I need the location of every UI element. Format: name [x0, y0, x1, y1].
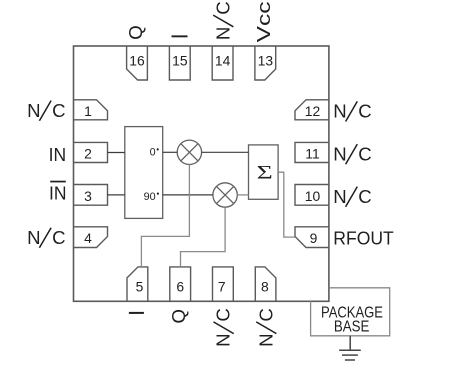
svg-text:Vcc: Vcc [253, 1, 274, 42]
svg-text:N: N [212, 27, 233, 40]
svg-text:C: C [212, 1, 233, 14]
svg-text:N: N [27, 227, 40, 248]
svg-text:N: N [333, 143, 346, 164]
svg-text:C: C [255, 308, 276, 321]
svg-text:90: 90 [144, 191, 156, 203]
svg-text:5: 5 [136, 278, 144, 294]
svg-text:9: 9 [310, 230, 318, 246]
svg-text:11: 11 [305, 146, 320, 162]
svg-text:6: 6 [176, 278, 184, 294]
svg-text:RFOUT: RFOUT [333, 228, 394, 249]
svg-text:N: N [213, 333, 234, 346]
svg-text:13: 13 [258, 52, 274, 68]
svg-text:IN: IN [49, 144, 67, 165]
svg-text:Q: Q [168, 309, 189, 323]
svg-text:IN: IN [49, 182, 67, 203]
svg-text:C: C [213, 308, 234, 321]
svg-text:N: N [255, 333, 276, 346]
svg-text:Q: Q [125, 25, 146, 39]
svg-text:8: 8 [261, 278, 269, 294]
svg-text:0: 0 [150, 147, 156, 159]
svg-text:N: N [333, 101, 346, 122]
svg-text:Σ: Σ [257, 163, 273, 183]
svg-text:16: 16 [129, 52, 145, 68]
svg-text:12: 12 [305, 103, 321, 119]
svg-text:C: C [52, 227, 65, 248]
svg-text:14: 14 [215, 52, 231, 68]
svg-text:4: 4 [84, 230, 92, 246]
svg-text:10: 10 [305, 188, 321, 204]
svg-text:N: N [333, 186, 346, 207]
svg-text:C: C [358, 143, 371, 164]
svg-text:3: 3 [84, 188, 92, 204]
svg-text:2: 2 [84, 146, 92, 162]
svg-text:C: C [358, 186, 371, 207]
svg-text:7: 7 [218, 278, 226, 294]
svg-text:BASE: BASE [334, 319, 370, 336]
svg-text:C: C [52, 100, 65, 121]
svg-text:C: C [358, 101, 371, 122]
svg-text:N: N [27, 100, 40, 121]
svg-text:15: 15 [172, 52, 188, 68]
svg-text:1: 1 [84, 103, 92, 119]
